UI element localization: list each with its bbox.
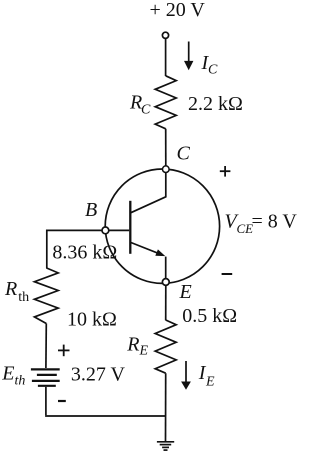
svg-text:C: C: [141, 102, 151, 117]
svg-text:E: E: [1, 363, 14, 385]
node C ring: [163, 166, 170, 173]
svg-text:C: C: [208, 63, 218, 78]
svg-text:R: R: [126, 333, 139, 355]
svg-text:8.36 kΩ: 8.36 kΩ: [52, 242, 117, 264]
svg-text:= 8 V: = 8 V: [252, 211, 298, 233]
wire left corner down to Rth: [46, 230, 48, 268]
current arrow IC: [184, 42, 193, 71]
svg-text:th: th: [18, 290, 29, 305]
svg-text:10 kΩ: 10 kΩ: [67, 309, 117, 331]
svg-text:+ 20 V: + 20 V: [150, 0, 206, 21]
ground symbol: [157, 442, 174, 450]
svg-text:E: E: [179, 281, 192, 303]
wire B node to left corner: [46, 229, 102, 231]
label IE: [198, 362, 215, 390]
svg-text:B: B: [85, 199, 97, 221]
label RC: [129, 91, 151, 117]
current arrow IE: [181, 361, 191, 390]
label VCE = 8 V: [225, 211, 298, 237]
svg-text:3.27 V: 3.27 V: [71, 364, 126, 386]
svg-text:0.5 kΩ: 0.5 kΩ: [182, 305, 237, 327]
bottom wire to ground junction: [45, 415, 165, 417]
plus sign VCE: [220, 166, 231, 177]
transistor emitter lead with arrow: [131, 243, 166, 279]
base wire from ring to bar: [109, 229, 129, 231]
plus sign battery: [58, 345, 70, 357]
svg-text:th: th: [15, 373, 26, 388]
minus sign battery: [58, 400, 66, 402]
transistor base bar: [129, 201, 131, 254]
svg-text:E: E: [139, 344, 149, 359]
wire RE to ground: [165, 373, 167, 441]
svg-text:2.2 kΩ: 2.2 kΩ: [188, 93, 243, 115]
svg-text:C: C: [177, 143, 191, 165]
wire E node down to RE: [165, 285, 167, 320]
svg-text:E: E: [205, 375, 215, 390]
label RE: [126, 333, 148, 358]
label IC: [201, 52, 219, 78]
resistor RE: [155, 320, 176, 373]
svg-text:R: R: [4, 278, 17, 300]
node B ring: [102, 227, 109, 234]
battery Eth: [31, 369, 60, 385]
label Eth: [1, 363, 25, 389]
transistor collector lead: [131, 173, 166, 213]
supply terminal: [162, 32, 168, 38]
wire RC to node C: [165, 129, 167, 166]
wire Rth to battery: [45, 324, 47, 369]
wire supply to RC: [165, 39, 167, 76]
wire battery to bottom corner: [45, 387, 47, 415]
resistor Rth: [34, 268, 58, 324]
label Rth: [4, 278, 29, 305]
resistor RC: [155, 76, 176, 129]
transistor Q1 circle: [105, 169, 219, 283]
node E ring: [162, 279, 169, 286]
minus sign VCE: [222, 273, 233, 275]
